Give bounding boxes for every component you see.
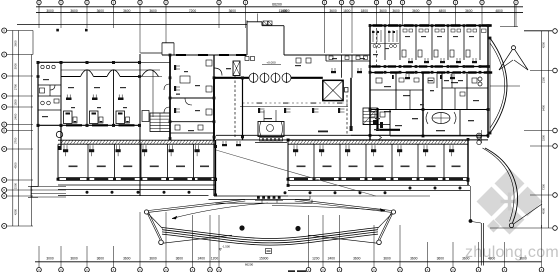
svg-text:B: B (3, 194, 5, 198)
svg-text:4200: 4200 (13, 208, 17, 215)
svg-text:B: B (3, 53, 5, 57)
svg-text:3600: 3600 (410, 256, 418, 260)
svg-text:3600: 3600 (465, 9, 473, 13)
svg-text:+0.000: +0.000 (266, 61, 276, 65)
svg-text:3000: 3000 (46, 256, 54, 260)
svg-text:1500: 1500 (13, 182, 17, 189)
svg-text:66200: 66200 (245, 262, 254, 266)
svg-text:B: B (3, 123, 5, 127)
svg-text:3600: 3600 (70, 9, 78, 13)
svg-text:3600: 3600 (123, 256, 131, 260)
svg-text:2700: 2700 (13, 83, 17, 90)
svg-text:3600: 3600 (97, 256, 105, 260)
svg-text:2700: 2700 (13, 137, 17, 144)
svg-text:4500: 4500 (13, 162, 17, 169)
svg-text:66200: 66200 (272, 3, 282, 7)
svg-text:B: B (3, 94, 5, 98)
svg-text:3600: 3600 (437, 256, 445, 260)
svg-text:2400: 2400 (198, 256, 206, 260)
svg-text:3600: 3600 (13, 40, 17, 47)
svg-text:1800: 1800 (361, 9, 369, 13)
svg-text:B: B (3, 29, 5, 33)
svg-text:3600: 3600 (392, 9, 400, 13)
svg-text:3600: 3600 (123, 9, 131, 13)
svg-text:3600: 3600 (176, 256, 184, 260)
svg-text:B: B (3, 74, 5, 78)
svg-text:2400: 2400 (328, 256, 336, 260)
svg-text:B: B (3, 224, 5, 228)
svg-text:3600: 3600 (519, 256, 527, 260)
svg-text:4500: 4500 (542, 207, 546, 214)
svg-text:1500: 1500 (13, 99, 17, 106)
svg-text:6400: 6400 (542, 104, 546, 111)
svg-text:B: B (3, 129, 5, 133)
svg-text:1200: 1200 (312, 256, 320, 260)
svg-text:4800: 4800 (488, 256, 496, 260)
svg-text:3000: 3000 (13, 63, 17, 70)
svg-text:4800: 4800 (439, 9, 447, 13)
svg-text:1200: 1200 (211, 256, 219, 260)
svg-text:B: B (3, 178, 5, 182)
svg-text:4800: 4800 (495, 9, 503, 13)
svg-text:2400: 2400 (13, 113, 17, 120)
svg-text:3600: 3600 (353, 256, 361, 260)
svg-text:B: B (3, 105, 5, 109)
svg-text:10800: 10800 (280, 9, 289, 13)
svg-text:1800: 1800 (343, 9, 351, 13)
svg-text:7300: 7300 (542, 183, 546, 190)
svg-text:3600: 3600 (229, 9, 237, 13)
svg-text:3600: 3600 (329, 9, 337, 13)
svg-text:3300: 3300 (542, 134, 546, 141)
svg-text:3600: 3600 (379, 9, 387, 13)
svg-text:3600: 3600 (149, 9, 157, 13)
svg-text:15000: 15000 (259, 256, 268, 260)
svg-text:3600: 3600 (383, 256, 391, 260)
svg-text:-1.500: -1.500 (222, 245, 230, 249)
svg-text:3600: 3600 (149, 256, 157, 260)
svg-text:3600: 3600 (97, 9, 105, 13)
svg-text:3600: 3600 (70, 256, 78, 260)
svg-text:7200: 7200 (189, 9, 197, 13)
svg-text:2100: 2100 (542, 76, 546, 83)
svg-text:3600: 3600 (462, 256, 470, 260)
svg-text:3000: 3000 (46, 9, 54, 13)
svg-text:zhulong.com: zhulong.com (465, 244, 559, 261)
svg-text:B: B (3, 188, 5, 192)
svg-text:3600: 3600 (412, 9, 420, 13)
svg-text:B: B (3, 147, 5, 151)
svg-text:4200: 4200 (542, 41, 546, 48)
